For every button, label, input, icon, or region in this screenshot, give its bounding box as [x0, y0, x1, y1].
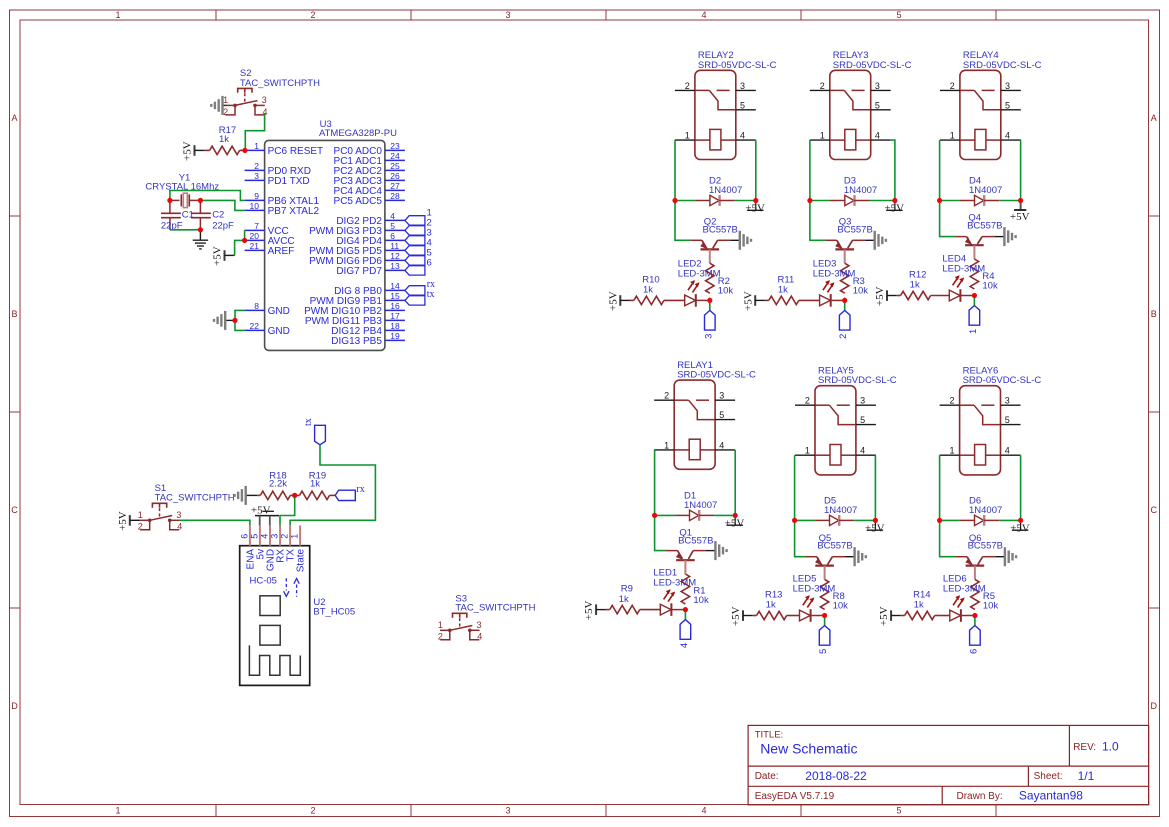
- U2 shield square 1: [260, 596, 280, 616]
- R9 labels: [619, 584, 633, 605]
- ground at R18: [235, 486, 258, 505]
- wire RELAY2 pin4 down: [755, 140, 757, 200]
- relay RELAY6 SRD-05VDC-SL-C: [940, 386, 1021, 475]
- Q2 labels: [703, 217, 738, 236]
- svg-text:+5V: +5V: [865, 523, 885, 535]
- RELAY1 labels: [677, 360, 756, 381]
- svg-text:1: 1: [254, 141, 259, 151]
- svg-text:1N4007: 1N4007: [844, 185, 877, 196]
- D5 labels: [824, 496, 857, 516]
- +5V flag at R13: [730, 606, 743, 626]
- junction D4 right: [1018, 198, 1023, 203]
- svg-text:23: 23: [390, 141, 400, 151]
- ground at U3 GND pins: [214, 311, 235, 330]
- LED3 labels: [813, 258, 856, 279]
- svg-text:10k: 10k: [983, 601, 999, 612]
- R13 labels: [765, 590, 782, 611]
- svg-text:+5V: +5V: [1010, 523, 1030, 535]
- R3 labels: [853, 276, 869, 297]
- junction GND: [232, 318, 237, 323]
- capacitor C1 22pF: [161, 200, 181, 229]
- svg-text:1N4007: 1N4007: [969, 505, 1002, 516]
- R18 labels: [269, 470, 287, 489]
- svg-text:24: 24: [390, 151, 400, 161]
- svg-text:2: 2: [310, 805, 315, 815]
- RELAY6 labels: [963, 366, 1042, 387]
- relay RELAY3 SRD-05VDC-SL-C: [810, 70, 891, 159]
- resistor R1 10k: [681, 574, 689, 610]
- wire RELAY4 pin1 down: [939, 140, 941, 200]
- resistor R8 10k: [820, 579, 828, 615]
- junction D6 right: [1018, 518, 1023, 523]
- svg-text:1N4007: 1N4007: [824, 505, 857, 516]
- svg-text:LED-3MM: LED-3MM: [813, 268, 856, 279]
- svg-text:SRD-05VDC-SL-C: SRD-05VDC-SL-C: [833, 60, 912, 71]
- wire RELAY3 pin1 down: [809, 140, 811, 200]
- U3 pin 8 GND: [245, 301, 290, 317]
- svg-text:2.2k: 2.2k: [269, 478, 287, 489]
- svg-text:3: 3: [1005, 81, 1010, 91]
- wire RELAY3 pin4 down: [891, 140, 895, 200]
- svg-text:4: 4: [679, 643, 690, 648]
- R19 labels: [309, 470, 326, 489]
- svg-text:12: 12: [390, 251, 400, 261]
- svg-text:+5V: +5V: [725, 518, 745, 530]
- diode D6 1N4007: [940, 515, 1021, 526]
- net port 3: [703, 310, 715, 339]
- svg-text:2: 2: [838, 334, 849, 339]
- svg-text:3: 3: [875, 81, 880, 91]
- svg-text:A: A: [1151, 113, 1157, 123]
- wire R18 node to HC05 RX: [280, 495, 295, 525]
- LED6 labels: [943, 574, 986, 595]
- U3 pin 25 PC2 ADC2: [334, 161, 405, 177]
- net port 2 on U3 pin: [405, 218, 432, 236]
- junction caps ground: [198, 227, 203, 232]
- svg-text:1N4007: 1N4007: [709, 185, 742, 196]
- svg-text:3: 3: [254, 171, 259, 181]
- svg-text:4: 4: [1005, 131, 1010, 141]
- svg-text:1k: 1k: [643, 285, 653, 296]
- ground below caps: [193, 230, 208, 249]
- crystal Y1 16Mhz: [170, 193, 201, 207]
- svg-text:2: 2: [664, 391, 669, 401]
- U3 pin 6 DIG4 PD4: [336, 231, 405, 247]
- svg-text:1: 1: [968, 329, 979, 334]
- svg-text:1.0: 1.0: [1102, 740, 1119, 754]
- svg-text:C: C: [11, 505, 18, 515]
- svg-text:20: 20: [250, 231, 260, 241]
- svg-text:16: 16: [390, 301, 400, 311]
- switch S2 TAC_SWITCHPTH: [223, 88, 267, 117]
- U2 antenna: [249, 645, 300, 675]
- S1 labels: [155, 483, 235, 503]
- R1 labels: [693, 585, 709, 606]
- svg-text:SRD-05VDC-SL-C: SRD-05VDC-SL-C: [677, 370, 756, 381]
- resistor R18 2.2k: [257, 491, 294, 499]
- wire RELAY4 pin4 down: [1020, 140, 1022, 200]
- svg-text:REV:: REV:: [1073, 742, 1096, 753]
- resistor R3 10k: [841, 263, 849, 300]
- junction LED node LED6: [972, 613, 977, 618]
- net port 6: [968, 626, 980, 655]
- svg-text:5: 5: [740, 100, 745, 110]
- svg-text:1: 1: [664, 440, 669, 450]
- svg-text:5: 5: [719, 410, 724, 420]
- junction crystal left: [167, 198, 172, 203]
- resistor R12 1k: [887, 291, 949, 299]
- svg-text:4: 4: [701, 805, 706, 815]
- svg-text:28: 28: [390, 191, 400, 201]
- svg-text:1: 1: [949, 446, 954, 456]
- svg-text:3: 3: [476, 620, 481, 630]
- +5V flag at RELAY6: [1010, 520, 1030, 534]
- svg-text:DIG7 PD7: DIG7 PD7: [336, 266, 382, 277]
- relay RELAY4 SRD-05VDC-SL-C: [940, 70, 1021, 159]
- +5V flag at RELAY4: [1010, 201, 1030, 224]
- svg-text:4: 4: [259, 534, 269, 539]
- D3 labels: [844, 176, 877, 196]
- U3 pin 17 PWM DIG11 PB3: [305, 311, 405, 327]
- svg-text:18: 18: [390, 321, 400, 331]
- svg-text:10k: 10k: [833, 601, 849, 612]
- diode D3 1N4007: [810, 195, 895, 206]
- svg-text:6: 6: [968, 649, 979, 654]
- relay RELAY5 SRD-05VDC-SL-C: [795, 386, 876, 475]
- LED2 labels: [678, 258, 721, 279]
- net port 1: [968, 306, 980, 335]
- U3 pin 11 PWM DIG5 PD5: [309, 241, 405, 257]
- U3 pin 2 PD0 RXD: [245, 161, 311, 177]
- svg-text:ATMEGA328P-PU: ATMEGA328P-PU: [319, 128, 397, 139]
- svg-text:Drawn By:: Drawn By:: [957, 791, 1003, 802]
- svg-text:HC-05: HC-05: [250, 576, 277, 587]
- net port tx flag: [303, 418, 326, 445]
- junction D4 left: [937, 198, 942, 203]
- U2 pin 5 5v: [249, 525, 266, 559]
- ground at Q3: [865, 231, 886, 250]
- transistor Q2 BC557B: [690, 240, 730, 263]
- svg-text:4: 4: [177, 522, 182, 532]
- svg-text:GND: GND: [268, 306, 290, 317]
- R2 labels: [718, 276, 734, 297]
- +5V flag for S1: [117, 511, 130, 531]
- junction LED node LED2: [707, 298, 712, 303]
- +5V flag at RELAY2: [745, 201, 765, 215]
- junction D6 left: [937, 518, 942, 523]
- Q1 labels: [678, 527, 713, 546]
- svg-text:10k: 10k: [982, 281, 998, 292]
- +5V flag at R10: [607, 291, 620, 311]
- wire caps bottom: [170, 229, 201, 231]
- U3 pin 24 PC1 ADC1: [334, 151, 405, 167]
- svg-text:2: 2: [949, 396, 954, 406]
- svg-text:+5V: +5V: [745, 203, 765, 215]
- wire S1 to HC05 ENA: [180, 520, 250, 525]
- svg-text:A: A: [11, 113, 17, 123]
- resistor R2 10k: [706, 263, 714, 300]
- wire RELAY5 pin4 down: [874, 455, 876, 520]
- U3 pin 5 PWM DIG3 PD3: [309, 221, 405, 237]
- ground at Q2: [730, 231, 751, 250]
- net port 5: [818, 626, 830, 655]
- svg-text:AREF: AREF: [268, 246, 295, 257]
- svg-text:rx: rx: [356, 484, 364, 495]
- net port 4: [679, 620, 691, 649]
- svg-text:4: 4: [1005, 446, 1010, 456]
- S2 labels: [240, 68, 320, 89]
- wire GND pins: [235, 310, 245, 330]
- LED LED3 LED-3MM: [820, 280, 843, 307]
- svg-text:2: 2: [280, 534, 290, 539]
- net port rx flag: [335, 484, 365, 500]
- wire +5V to S1: [130, 519, 140, 521]
- svg-text:1N4007: 1N4007: [969, 185, 1002, 196]
- +5V flag at HC05: [251, 504, 279, 525]
- svg-text:4: 4: [719, 440, 724, 450]
- svg-text:TAC_SWITCHPTH: TAC_SWITCHPTH: [455, 602, 535, 613]
- svg-text:1k: 1k: [914, 600, 924, 611]
- net port rx on U3 pin 14: [405, 279, 435, 295]
- svg-text:27: 27: [390, 181, 400, 191]
- junction crystal right: [198, 198, 203, 203]
- U3 pin 21 AREF: [245, 241, 295, 257]
- junction LED node LED4: [972, 293, 977, 298]
- C1 labels: [161, 210, 194, 232]
- U3 pin 23 PC0 ADC0: [334, 141, 405, 157]
- svg-text:C2: C2: [212, 210, 224, 221]
- svg-text:+5V: +5V: [583, 600, 595, 620]
- svg-text:5: 5: [896, 10, 901, 20]
- RELAY3 labels: [833, 50, 912, 71]
- +5V flag at R11: [742, 291, 755, 311]
- U3 pin 22 GND: [245, 321, 290, 337]
- svg-text:State: State: [296, 548, 307, 572]
- svg-text:D: D: [1151, 701, 1158, 711]
- svg-text:BC557B: BC557B: [967, 220, 1002, 231]
- svg-text:15: 15: [390, 291, 400, 301]
- title block text: [755, 730, 1119, 803]
- +5V flag at RELAY5: [865, 520, 885, 534]
- svg-text:21: 21: [250, 241, 260, 251]
- LED5 labels: [793, 574, 836, 595]
- Q6 labels: [968, 533, 1003, 552]
- U3 pin 14 DIG 8 PB0: [334, 281, 405, 297]
- U3 pin 1 PC6 RESET: [245, 141, 324, 157]
- svg-text:1k: 1k: [766, 600, 776, 611]
- svg-text:1k: 1k: [219, 134, 229, 145]
- junction AVCC: [242, 238, 247, 243]
- wire D4 to Q4: [940, 201, 955, 237]
- transistor Q1 BC557B: [666, 551, 706, 574]
- U3 pin 19 DIG13 PB5: [331, 331, 405, 347]
- svg-text:3: 3: [505, 10, 510, 20]
- R4 labels: [982, 271, 998, 292]
- wire RELAY5 pin1 down: [794, 455, 796, 520]
- svg-text:LED-3MM: LED-3MM: [943, 584, 986, 595]
- svg-text:1N4007: 1N4007: [684, 500, 717, 511]
- junction R18 R19: [292, 493, 297, 498]
- net port 2: [838, 310, 850, 339]
- svg-text:17: 17: [390, 311, 400, 321]
- diode D5 1N4007: [795, 515, 876, 526]
- +5V flag for R17: [182, 141, 195, 161]
- +5V flag at RELAY3: [884, 201, 904, 215]
- wire D2 to Q2: [675, 201, 690, 241]
- svg-text:26: 26: [390, 171, 400, 181]
- svg-text:5: 5: [896, 805, 901, 815]
- wire RELAY2 pin1 down: [674, 140, 676, 200]
- svg-text:13: 13: [390, 261, 400, 271]
- R14 labels: [913, 590, 930, 611]
- svg-text:Sheet:: Sheet:: [1034, 771, 1063, 782]
- transistor Q4 BC557B: [955, 237, 995, 259]
- svg-text:LED-3MM: LED-3MM: [678, 268, 721, 279]
- svg-text:+5V: +5V: [117, 511, 129, 531]
- svg-text:PD1 TXD: PD1 TXD: [268, 176, 310, 187]
- +5V flag for AVCC: [212, 246, 225, 266]
- LED1 labels: [653, 568, 696, 589]
- D1 labels: [684, 491, 717, 511]
- svg-text:DIG13 PB5: DIG13 PB5: [331, 336, 382, 347]
- svg-text:19: 19: [390, 331, 400, 341]
- svg-text:3: 3: [860, 396, 865, 406]
- junction node reset: [242, 148, 247, 153]
- resistor R17 1k: [204, 146, 245, 154]
- junction D3 left: [807, 198, 812, 203]
- LED4 labels: [942, 254, 985, 275]
- junction LED node LED1: [683, 607, 688, 612]
- svg-text:2018-08-22: 2018-08-22: [805, 769, 867, 783]
- svg-text:6: 6: [239, 534, 249, 539]
- U3 pin 10 PB7 XTAL2: [245, 201, 320, 217]
- svg-text:2: 2: [950, 81, 955, 91]
- net port 1 on U3 pin: [405, 208, 432, 226]
- svg-text:C: C: [1151, 505, 1158, 515]
- svg-text:B: B: [11, 309, 17, 319]
- C2 labels: [212, 210, 234, 232]
- resistor R19 1k: [295, 491, 336, 499]
- R11 labels: [778, 275, 795, 296]
- svg-text:3: 3: [1005, 396, 1010, 406]
- Q4 labels: [967, 212, 1002, 231]
- svg-text:1: 1: [115, 805, 120, 815]
- svg-text:+5V: +5V: [878, 606, 890, 626]
- resistor R10 1k: [620, 296, 684, 304]
- U3 pin 26 PC3 ADC3: [334, 171, 405, 187]
- svg-text:2: 2: [223, 107, 228, 117]
- svg-text:14: 14: [390, 281, 400, 291]
- junction LED node LED3: [842, 298, 847, 303]
- U2 pin 2 TX: [280, 525, 297, 561]
- net port tx on U3 pin 15: [405, 289, 435, 305]
- svg-text:1k: 1k: [310, 478, 320, 489]
- svg-text:+5V: +5V: [1010, 211, 1030, 223]
- LED LED5 LED-3MM: [800, 595, 823, 622]
- svg-text:22pF: 22pF: [212, 221, 234, 232]
- svg-text:LED-3MM: LED-3MM: [793, 584, 836, 595]
- svg-text:TAC_SWITCHPTH: TAC_SWITCHPTH: [240, 78, 320, 89]
- U3 pin 28 PC5 ADC5: [334, 191, 405, 207]
- svg-text:Date:: Date:: [755, 771, 779, 782]
- Y1 labels: [145, 173, 219, 193]
- svg-text:4: 4: [875, 131, 880, 141]
- wire D1 to Q1: [655, 515, 666, 550]
- D4 labels: [969, 176, 1002, 196]
- svg-text:PC6 RESET: PC6 RESET: [268, 146, 324, 157]
- junction D5 left: [792, 518, 797, 523]
- svg-text:1k: 1k: [619, 594, 629, 605]
- resistor R9 1k: [596, 605, 660, 613]
- svg-text:5: 5: [1005, 415, 1010, 425]
- wire D6 to Q6: [940, 520, 956, 556]
- svg-text:5: 5: [860, 415, 865, 425]
- svg-text:BC557B: BC557B: [678, 535, 713, 546]
- +5V flag at R9: [583, 600, 596, 620]
- svg-text:PC5 ADC5: PC5 ADC5: [334, 196, 383, 207]
- svg-text:BC557B: BC557B: [703, 225, 738, 236]
- svg-text:C1: C1: [182, 210, 194, 221]
- svg-text:+5V: +5V: [884, 203, 904, 215]
- U3 pin 4 DIG2 PD2: [336, 211, 405, 227]
- junction D2 right: [753, 198, 758, 203]
- wire S2 pin4 to R17 node: [245, 114, 264, 148]
- wire to net port 6: [974, 616, 976, 626]
- svg-text:3: 3: [176, 510, 181, 520]
- resistor R4 10k: [970, 259, 978, 296]
- svg-text:8: 8: [254, 301, 259, 311]
- resistor R5 10k: [971, 579, 979, 615]
- junction D2 left: [672, 198, 677, 203]
- U3 pin 3 PD1 TXD: [245, 171, 310, 187]
- wire crystal to XTAL2: [200, 200, 244, 210]
- net port 4 on U3 pin: [405, 238, 432, 256]
- switch S1 TAC_SWITCHPTH: [138, 503, 182, 531]
- junction LED node LED5: [822, 613, 827, 618]
- resistor R14 1k: [891, 611, 950, 619]
- wire to net port 5: [824, 616, 826, 626]
- junction D1 left: [652, 513, 657, 518]
- junction D1 right: [733, 513, 738, 518]
- svg-text:+5V: +5V: [874, 286, 886, 306]
- wire D5 to Q5: [795, 520, 806, 556]
- svg-text:1: 1: [290, 534, 300, 539]
- svg-text:4: 4: [390, 211, 395, 221]
- svg-text:1: 1: [820, 131, 825, 141]
- U3 reference labels: [319, 119, 397, 139]
- relay RELAY1 SRD-05VDC-SL-C: [654, 380, 735, 469]
- net port 6 on U3 pin: [405, 258, 432, 276]
- svg-text:5: 5: [1005, 100, 1010, 110]
- svg-text:4: 4: [740, 131, 745, 141]
- switch S3 TAC_SWITCHPTH: [438, 613, 482, 641]
- resistor R11 1k: [755, 296, 819, 304]
- svg-text:1: 1: [115, 10, 120, 20]
- svg-text:LED-3MM: LED-3MM: [653, 578, 696, 589]
- U3 pin 15 PWM DIG9 PB1: [310, 291, 405, 307]
- wire to net port 3: [709, 300, 711, 310]
- diode D4 1N4007: [940, 195, 1021, 206]
- svg-text:6: 6: [390, 231, 395, 241]
- R17 labels: [219, 125, 236, 145]
- svg-text:+5V: +5V: [251, 504, 271, 516]
- svg-text:PB7 XTAL2: PB7 XTAL2: [268, 206, 320, 217]
- RELAY5 labels: [818, 366, 897, 387]
- svg-text:1: 1: [438, 620, 443, 630]
- U2 pin 3 RX: [269, 525, 286, 562]
- U2 pin 1 State: [290, 525, 307, 572]
- LED LED6 LED-3MM: [950, 595, 973, 622]
